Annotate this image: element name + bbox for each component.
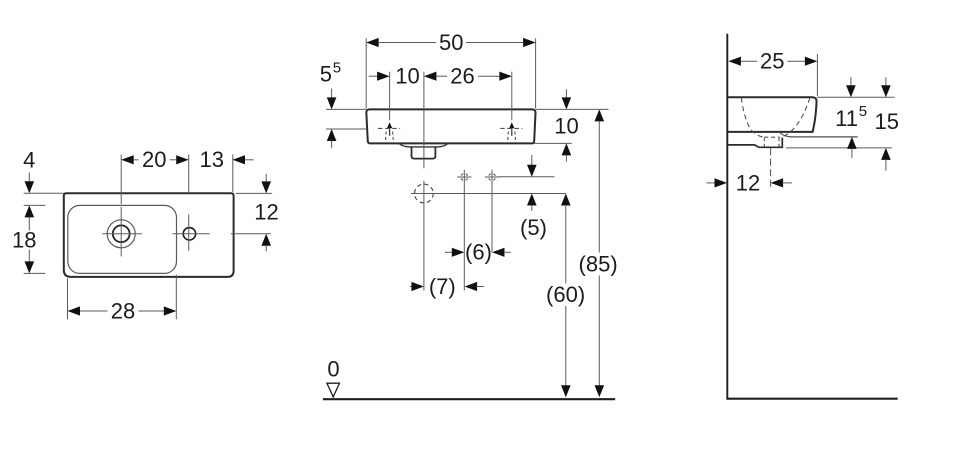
bowl underside dish (front view)	[399, 143, 448, 147]
dimension (6)	[445, 251, 452, 253]
vertical line from left cross	[463, 170, 465, 291]
dimension 12 (right of top view)	[265, 174, 267, 182]
overflow hole vertical centerline	[188, 215, 190, 251]
dimension 10 (tap offset)	[369, 75, 378, 77]
dimension (85)	[595, 109, 605, 121]
svg-text:(5): (5)	[520, 215, 547, 240]
svg-text:26: 26	[450, 64, 474, 89]
dimension 28 (bottom)	[67, 278, 69, 319]
inner top extension left	[24, 204, 46, 206]
vertical centerline (front view)	[423, 72, 425, 169]
down arrow 11.5	[850, 77, 852, 86]
right fixing hole (dashed)	[511, 72, 513, 121]
dimension 26	[424, 72, 437, 81]
washbasin outer outline (top view)	[64, 193, 234, 277]
bowl underside curve to reference line	[779, 132, 858, 137]
svg-text:50: 50	[439, 30, 463, 55]
dimension 20	[121, 155, 134, 164]
left fixing hole (dashed)	[389, 72, 391, 121]
drain centerline (side view)	[770, 148, 772, 190]
dimension 18 (left)	[25, 205, 35, 217]
datum triangle	[327, 383, 340, 397]
svg-text:12: 12	[736, 170, 760, 195]
inner bottom extension left	[24, 272, 46, 274]
svg-text:5: 5	[859, 103, 867, 120]
washbasin outline (front view)	[366, 109, 535, 143]
drain bottom reference line	[786, 147, 892, 149]
down arrow 15	[885, 77, 887, 86]
svg-text:13: 13	[200, 147, 224, 172]
svg-text:(85): (85)	[579, 251, 618, 276]
svg-text:10: 10	[554, 113, 578, 138]
drain level line	[411, 193, 566, 195]
vertical line from right cross	[491, 170, 493, 253]
mounting/drain profile (side view)	[728, 138, 782, 148]
up arrow 15	[881, 148, 891, 160]
inner bowl outline (top view)	[68, 205, 177, 273]
extension line overflow (13 dim)	[188, 155, 190, 194]
wall line	[726, 34, 728, 399]
tap hole horizontal centerline	[102, 233, 142, 235]
drain dashed outline	[764, 136, 779, 138]
overflow hole horizontal centerline	[172, 233, 209, 235]
overflow hole circle	[183, 228, 195, 240]
extension line right edge (13 dim)	[232, 155, 234, 193]
tap hole vertical centerline / dim extension	[120, 155, 122, 205]
washbasin profile (side view)	[728, 97, 817, 132]
up arrow 11.5	[847, 137, 857, 149]
svg-text:4: 4	[23, 148, 35, 173]
floor line (front view)	[323, 398, 615, 400]
floor line (side view)	[726, 398, 897, 400]
dimension 50	[365, 38, 367, 108]
svg-text:11: 11	[835, 106, 858, 131]
dimension (5)	[531, 155, 533, 165]
svg-text:5: 5	[320, 62, 332, 87]
drain trap dashed circle	[415, 184, 434, 203]
svg-text:0: 0	[327, 356, 339, 381]
fixing hole cross left	[457, 176, 471, 178]
svg-text:25: 25	[760, 49, 784, 74]
fixing hole cross right	[485, 176, 499, 178]
tap hole inner circle	[113, 225, 130, 242]
svg-text:5: 5	[333, 60, 341, 77]
svg-text:(7): (7)	[429, 274, 456, 299]
inner bowl dashed profile left	[741, 98, 764, 137]
dimension (60)	[561, 194, 571, 206]
svg-text:20: 20	[142, 147, 166, 172]
inner bowl dashed profile right	[780, 98, 810, 137]
drain outlet box (front view)	[412, 147, 436, 159]
svg-text:12: 12	[254, 199, 278, 224]
svg-text:(60): (60)	[546, 282, 585, 307]
svg-text:(6): (6)	[465, 240, 492, 265]
svg-text:10: 10	[395, 64, 419, 89]
rim level extension line right	[817, 96, 895, 98]
top edge extension left	[24, 192, 64, 194]
dimension 12 (side view)	[706, 182, 715, 184]
dimension 10 (height, right)	[536, 108, 609, 110]
tap hole outer circle	[107, 220, 135, 248]
svg-text:28: 28	[111, 298, 135, 323]
svg-text:15: 15	[874, 109, 898, 134]
svg-text:18: 18	[12, 228, 36, 253]
fixing holes level line	[498, 176, 554, 178]
dimension (7)	[410, 286, 412, 288]
dimension 25	[728, 57, 741, 66]
